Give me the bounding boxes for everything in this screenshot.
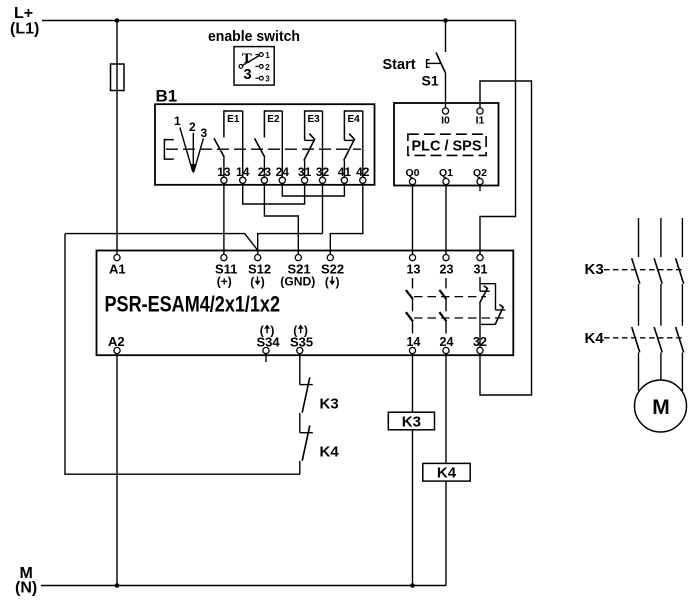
PSR terminal 23 — [443, 255, 449, 261]
B1 mechanical linkage (dashed) — [166, 148, 361, 150]
enable switch legend box — [234, 47, 274, 86]
phase line 1 with K3/K4 contacts — [632, 218, 640, 391]
svg-text:Q2: Q2 — [473, 167, 487, 179]
PSR terminal S12 — [255, 255, 261, 261]
wire feedback loop left side — [65, 234, 300, 475]
PSR terminal 13 — [409, 255, 415, 261]
enable switch position 2 contact — [255, 65, 263, 69]
PSR type label — [105, 292, 281, 317]
enable switch blade to position 1 — [243, 56, 260, 66]
svg-text:K3: K3 — [585, 261, 604, 278]
S1 label — [422, 73, 439, 89]
wire S34 stub — [265, 354, 267, 362]
node L+ label — [10, 5, 39, 38]
wire L+ to A1 — [116, 21, 118, 255]
feedback contact K4 (NC) — [300, 425, 313, 460]
PSR-ESAM4 relay box — [97, 251, 514, 356]
B1 wire E3 box to terminal 32 — [322, 111, 324, 177]
PLC terminal labels Q0 Q1 Q2 — [405, 167, 487, 179]
enable switch position labels — [265, 51, 270, 84]
PSR terminal S22 — [327, 255, 333, 261]
PLC dashed frame — [408, 134, 486, 155]
svg-text:K4: K4 — [585, 330, 605, 347]
svg-text:31: 31 — [474, 262, 488, 276]
B1 E1 box — [224, 111, 243, 138]
PLC terminal I1 — [477, 108, 483, 114]
phase line 2 with K3/K4 contacts — [654, 218, 662, 381]
wire PLC Q1 to PSR 23 — [445, 185, 447, 255]
svg-text:Q1: Q1 — [439, 167, 453, 179]
B1 wire E2 box to terminal 24 — [281, 111, 283, 177]
PSR bottom terminal labels — [108, 334, 313, 350]
wire S35 to K3 feedback contact — [299, 354, 301, 385]
svg-text:M: M — [652, 396, 670, 419]
svg-text:Q0: Q0 — [405, 167, 419, 179]
PSR terminal 32 — [477, 347, 483, 353]
K4 feedback label — [320, 444, 340, 461]
PSR contact linkage dashed row 2 — [414, 317, 504, 319]
svg-text:E4: E4 — [347, 114, 360, 125]
svg-text:(+): (+) — [217, 274, 232, 288]
svg-text:(: ( — [293, 324, 297, 338]
fuse F1 — [111, 64, 125, 91]
S22 down-arrow sub-label — [325, 275, 340, 289]
svg-text:I1: I1 — [476, 115, 485, 127]
phase line 3 with K3/K4 contacts — [676, 218, 684, 391]
B1 selector position line 3 — [194, 138, 204, 172]
K4 coil label — [437, 465, 457, 482]
svg-text:K4: K4 — [437, 465, 457, 482]
B1 selector position line 2 with arrow — [190, 133, 196, 174]
PSR terminal S21 — [295, 255, 301, 261]
svg-text:PLC / SPS: PLC / SPS — [412, 138, 482, 155]
enable switch legend label — [208, 29, 300, 45]
junction dot A2/M rail — [115, 583, 120, 588]
svg-text:3: 3 — [243, 67, 251, 83]
wire PLC I1 to PSR 32 (feedback loop right) — [480, 81, 532, 395]
wire PLC Q2 stub — [479, 185, 481, 191]
wire PSR 24 to K4 coil — [445, 354, 447, 464]
B1 E4 box — [344, 111, 362, 140]
wire K4 feedback down to loop — [299, 461, 301, 474]
svg-text:PSR-ESAM4/2x1/1x2: PSR-ESAM4/2x1/1x2 — [105, 292, 281, 317]
PLC terminal Q0 — [409, 178, 415, 184]
B1 E3 box — [305, 111, 323, 140]
PSR terminal 14 — [409, 347, 415, 353]
wire A2 to M rail — [116, 354, 118, 586]
wire PLC Q0 to PSR 13 — [412, 185, 414, 255]
enable switch position 1 contact — [255, 53, 263, 57]
svg-text:I0: I0 — [441, 115, 450, 127]
svg-text:(: ( — [250, 275, 254, 289]
PSR terminal S34 — [263, 347, 269, 353]
enable switch common contact — [239, 65, 243, 69]
PLC terminal Q2 — [477, 178, 483, 184]
contactor K3 linkage dashed — [604, 269, 683, 271]
B1 contact 31-32 fixed bar — [305, 139, 315, 141]
contactor K4 label (3-phase) — [585, 330, 605, 347]
B1 wire blade to terminal 13 — [223, 157, 225, 177]
PLC terminal I0 — [442, 108, 448, 114]
B1 label — [156, 87, 178, 106]
svg-text:E2: E2 — [267, 114, 280, 125]
svg-text:E1: E1 — [227, 114, 240, 125]
svg-text:3: 3 — [201, 126, 208, 140]
PSR contact linkage dashed row 1 — [414, 296, 486, 298]
enable switch big position number 3 — [243, 67, 251, 83]
wire K4 coil to M rail — [445, 481, 447, 585]
PSR output contact 23-24 — [439, 278, 446, 333]
PSR contact column labels 14 24 32 — [407, 335, 487, 349]
PSR terminal A2 — [114, 347, 120, 353]
B1 actuator bracket — [164, 140, 173, 160]
PLC terminal Q1 — [443, 178, 449, 184]
svg-text:S1: S1 — [422, 73, 439, 89]
power rail M — [41, 585, 446, 587]
PSR terminal S11 — [221, 255, 227, 261]
svg-text:): ) — [304, 324, 308, 338]
B1 contact 31-32 blade — [304, 134, 315, 161]
K4 coil box — [423, 463, 470, 481]
PSR terminal 31 — [477, 255, 483, 261]
wire B1 42 to PSR S22 — [330, 183, 363, 254]
PLC / SPS box — [394, 103, 499, 186]
contactor K3 label (3-phase) — [585, 261, 604, 278]
wire B1 24 to B1 41 — [282, 183, 344, 196]
svg-text:(: ( — [325, 275, 329, 289]
svg-text:2: 2 — [189, 120, 196, 134]
wire S12 net horizontal (32 to S12 stub) — [258, 234, 323, 255]
svg-text:K4: K4 — [320, 444, 340, 461]
svg-text:1: 1 — [265, 51, 270, 60]
wire K3 coil to M rail — [412, 430, 414, 586]
svg-text:13: 13 — [407, 262, 421, 276]
Start label — [383, 57, 416, 73]
svg-text:enable switch: enable switch — [208, 29, 300, 45]
B1 wire blade to terminal 41 — [343, 161, 345, 178]
wire K3 to K4 feedback contact — [299, 413, 301, 433]
PSR output contact 13-14 — [406, 278, 413, 333]
wire S1 to PLC I0 — [445, 73, 447, 108]
wire B1 23 to PSR S21 — [264, 183, 298, 254]
wire L+ to S1 — [445, 21, 447, 53]
B1 wire E1 box to terminal 14 — [242, 111, 244, 177]
PSR contact column labels 13 23 31 — [407, 262, 488, 276]
pushbutton S1 actuator — [427, 60, 441, 68]
wire B1 32 down to S12 net — [322, 183, 324, 233]
B1 terminal circles — [221, 177, 366, 183]
PSR terminal A1 — [114, 255, 120, 261]
wire B1 14 to B1 31 — [243, 183, 305, 204]
svg-text:(L1): (L1) — [10, 21, 39, 38]
K3 feedback label — [320, 396, 339, 413]
K3 coil label — [402, 413, 421, 430]
B1 contact 23-24 blade — [255, 138, 265, 157]
svg-text:A1: A1 — [109, 261, 126, 276]
B1 wire blade to terminal 23 — [263, 157, 265, 177]
pushbutton S1 blade — [436, 53, 445, 73]
svg-text:): ) — [261, 275, 265, 289]
PLC terminal labels I0 I1 — [441, 115, 484, 127]
B1 selector position labels 1 2 3 — [174, 114, 208, 140]
S34 up-arrow sub-label — [260, 324, 275, 338]
PSR terminal S35 — [297, 347, 303, 353]
B1 terminal labels — [217, 165, 370, 179]
svg-text:Start: Start — [383, 57, 416, 73]
svg-text:B1: B1 — [156, 87, 178, 106]
power rail L+ — [42, 20, 516, 22]
B1 wire blade to terminal 31 — [304, 161, 306, 178]
svg-text:): ) — [336, 275, 340, 289]
S12 down-arrow sub-label — [250, 275, 265, 289]
PSR NC contact 31-32 — [480, 277, 506, 347]
junction dot at S1 branch — [443, 18, 448, 23]
B1 E2 box — [264, 111, 282, 138]
svg-text:L+: L+ — [14, 5, 33, 22]
contactor K4 linkage dashed — [604, 337, 683, 339]
feedback contact K3 (NC) — [300, 377, 313, 412]
wire PSR 14 to K3 coil — [412, 354, 414, 413]
B1 contact 41-42 blade — [344, 134, 355, 161]
wire B1 13 to PSR S11 — [223, 183, 225, 254]
svg-text:(: ( — [260, 324, 264, 338]
svg-text:1: 1 — [174, 114, 181, 128]
junction dot at fuse branch — [115, 18, 120, 23]
svg-text:(N): (N) — [15, 580, 37, 597]
B1 contact 41-42 fixed bar — [344, 139, 354, 141]
node M label — [15, 565, 37, 597]
svg-text:A2: A2 — [108, 334, 125, 349]
B1 selector position line 1 — [180, 128, 193, 172]
svg-text:K3: K3 — [402, 413, 421, 430]
B1 contact 13-14 blade — [214, 138, 224, 157]
PLC / SPS label — [412, 138, 482, 155]
S35 up-arrow sub-label — [293, 324, 308, 338]
svg-text:K3: K3 — [320, 396, 339, 413]
B1 enable-switch box — [155, 104, 375, 185]
B1 wire E4 box to terminal 42 — [362, 111, 364, 177]
svg-text:2: 2 — [265, 63, 270, 72]
wire L+ rail to PSR 31 (right drop) — [480, 21, 516, 255]
svg-text:(GND): (GND) — [280, 274, 315, 288]
svg-text:3: 3 — [265, 75, 270, 84]
wire feedback net horizontal to S12 (diagonal joggle) — [65, 234, 258, 251]
motor M — [635, 380, 687, 432]
svg-text:): ) — [270, 324, 274, 338]
enable switch position 3 contact — [255, 76, 263, 80]
junction dot K3/M rail — [410, 583, 415, 588]
PSR top terminal labels — [109, 261, 344, 276]
PSR terminal 24 — [443, 347, 449, 353]
K3 coil box — [388, 412, 434, 430]
enable switch toggle T — [242, 51, 252, 67]
svg-text:E3: E3 — [307, 114, 320, 125]
svg-text:23: 23 — [440, 262, 454, 276]
